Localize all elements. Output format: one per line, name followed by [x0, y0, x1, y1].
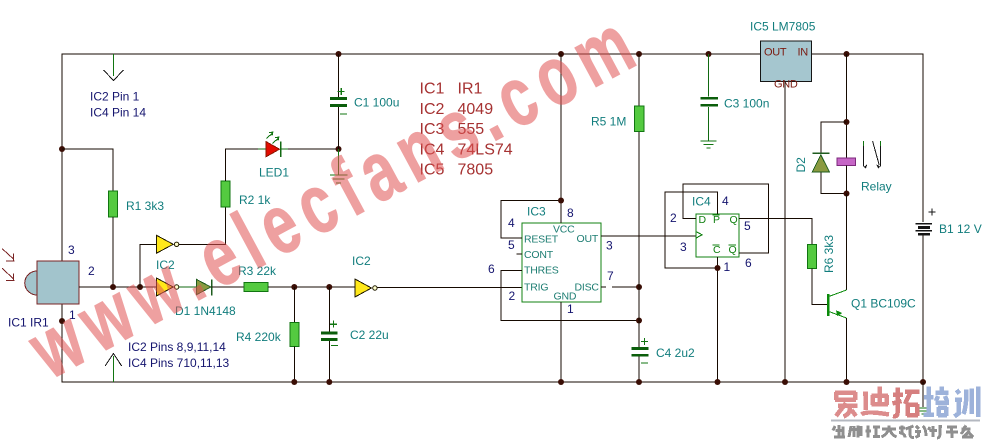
op IC3 555 box	[522, 223, 601, 302]
wire relay coil bottom	[846, 165, 848, 193]
wire inverter3 out to TRIG	[378, 287, 523, 289]
555 pin 8 wire VCC	[560, 54, 562, 223]
node LED/C1	[336, 146, 342, 152]
node C2 bottom	[326, 379, 332, 385]
regulator IC5 7805 box	[761, 41, 812, 82]
relay contact symbol	[864, 141, 881, 168]
wire inverter1 input	[140, 244, 157, 287]
node 7805 GND bottom	[782, 379, 788, 385]
555 pin 4 RESET wire loop	[501, 201, 561, 239]
node R4 bottom	[291, 379, 297, 385]
node C4 bottom	[636, 379, 642, 385]
capacitor C3	[701, 54, 719, 141]
watermark www.elecfans.com	[13, 0, 656, 397]
node signal inverter1 input	[137, 284, 143, 290]
flipflop IC4 box	[696, 214, 739, 257]
node battery bottom	[920, 379, 926, 385]
node IC4 pin1 bottom	[715, 379, 721, 385]
node R4	[291, 284, 297, 290]
555 pin 1 GND wire	[560, 302, 562, 382]
resistor R4	[290, 323, 299, 347]
wire bottom rail	[62, 381, 923, 383]
relay coil K1	[837, 158, 856, 166]
node signal R1	[110, 284, 116, 290]
logo char di	[862, 387, 890, 415]
wire inverter1 out to R2	[179, 207, 226, 244]
wire left rail lower	[61, 304, 63, 382]
node top rail relay	[844, 51, 850, 57]
node top rail C3	[706, 51, 712, 57]
logo underline	[831, 419, 980, 421]
IC4 clock triangle	[696, 232, 702, 239]
wire top rail left segment	[62, 53, 760, 55]
wire R2 top to LED	[226, 149, 266, 181]
logo char tuo	[893, 388, 920, 417]
capacitor C2	[321, 287, 338, 382]
resistor R2	[221, 181, 230, 207]
wire top rail right segment	[812, 53, 924, 55]
IR receiver IC1 body	[25, 261, 79, 304]
ground battery	[916, 408, 931, 414]
wire R6 bottom to base	[812, 269, 827, 305]
wire junction to R1	[62, 149, 113, 191]
IC4 pin 4 preset loop to pin 1	[665, 192, 718, 268]
ground below C1	[330, 149, 348, 183]
node 555 GND bottom	[558, 379, 564, 385]
power tap arrow (top)	[104, 54, 124, 81]
diode D2 loop	[821, 122, 847, 194]
node emitter bottom	[844, 379, 850, 385]
node IR pin1	[59, 318, 65, 324]
wire R4 branch	[293, 287, 295, 323]
logo char xun	[955, 387, 979, 418]
logo char pei	[924, 387, 950, 417]
IC4 inner label P bar	[713, 214, 720, 226]
resistor R5	[635, 106, 645, 132]
LED LED1	[266, 142, 281, 157]
wire left rail upper	[61, 54, 63, 261]
555 pin 7 DISC wire	[601, 286, 606, 288]
node RESET/VCC	[558, 198, 564, 204]
diode D1	[197, 279, 212, 295]
diode D2	[812, 153, 829, 172]
wire R4 to bottom rail	[293, 347, 295, 383]
IC4 pin 1 clear wire	[717, 257, 719, 382]
wire D1 to R3	[212, 286, 244, 288]
wire inverter2 out to D1	[179, 286, 197, 288]
wire R3 to 555 TRIG	[268, 286, 355, 288]
resistor R1	[109, 191, 118, 217]
IR ray arrow 1	[2, 249, 14, 261]
resistor R6	[808, 245, 817, 269]
7805 GND wire to bottom rail	[784, 82, 786, 383]
node top rail 555 VCC	[558, 51, 564, 57]
resistor R3	[244, 283, 268, 292]
inverter IC2b	[157, 278, 179, 296]
inverter IC2a	[157, 235, 179, 253]
LED light arrows	[267, 132, 279, 143]
IC4 pin 2 D wire and loop from Qbar	[683, 184, 769, 253]
555 pin 6 THRES wire loop	[501, 271, 639, 321]
capacitor C4	[631, 338, 648, 382]
node relay bottom	[844, 191, 850, 197]
wire emitter to bottom rail	[846, 318, 848, 382]
wire R1 bottom to signal line	[112, 217, 114, 287]
wire LED cathode to C1 node	[281, 148, 339, 150]
wire relay branch vertical top	[846, 54, 848, 158]
node P/C tie	[715, 265, 721, 271]
ground below C3	[701, 141, 717, 148]
IR ray arrow 2	[2, 268, 14, 280]
power tap arrow (bottom)	[105, 354, 121, 383]
node junction left rail R1 branch	[59, 146, 65, 152]
logo tagline she pin he tian xian she ji zhuan jia	[833, 425, 973, 438]
transistor Q1	[828, 290, 846, 318]
node top rail R5	[636, 51, 642, 57]
555 pin 5 CONT stub	[517, 253, 523, 255]
IC4 inner label C bar	[713, 244, 721, 256]
node relay top	[844, 119, 850, 125]
node top rail C1	[336, 51, 342, 57]
logo char yi	[835, 392, 858, 417]
555 pin 3 OUT wire to IC4 clk	[601, 235, 696, 237]
wire battery to ground	[922, 382, 924, 407]
inverter IC2c	[355, 279, 377, 297]
node C2	[326, 284, 332, 290]
wire signal line IR to inverter2	[79, 286, 157, 288]
wire collector vertical	[846, 194, 848, 291]
IC4 pin 5 Q wire to R6	[739, 219, 812, 245]
logo yiditop badge	[831, 387, 980, 439]
node DISC/R5	[636, 284, 642, 290]
node THRES/C4	[636, 318, 642, 324]
wire R5/C4 vertical	[638, 54, 640, 347]
capacitor C1	[330, 54, 347, 149]
battery B1	[916, 54, 936, 382]
